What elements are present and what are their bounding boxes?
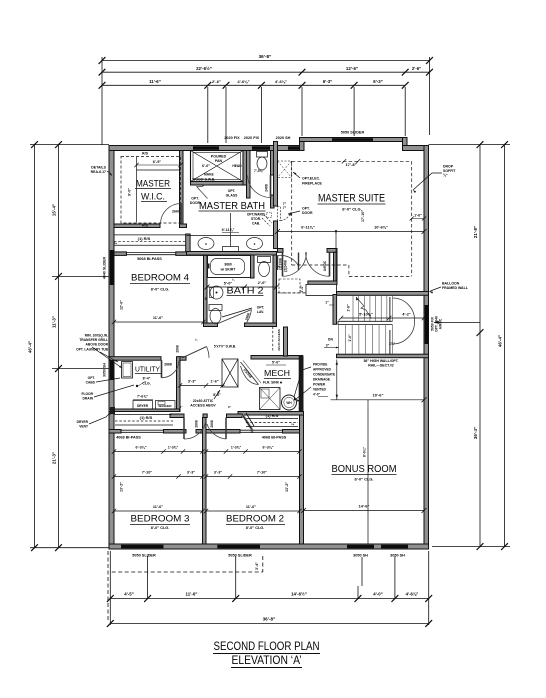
svg-text:OPT.ELEC.: OPT.ELEC. <box>302 177 320 181</box>
svg-text:8’-0” CLG.: 8’-0” CLG. <box>246 526 265 530</box>
svg-text:6’-3”: 6’-3” <box>323 79 333 84</box>
svg-text:DETAILS: DETAILS <box>91 166 106 170</box>
svg-text:1’-6”: 1’-6” <box>414 214 422 218</box>
svg-text:5’: 5’ <box>205 297 208 301</box>
svg-text:MAKE: MAKE <box>204 173 215 177</box>
svg-text:2020 SH: 2020 SH <box>276 136 291 140</box>
svg-text:15’-4”: 15’-4” <box>52 204 57 216</box>
svg-text:FLOOR: FLOOR <box>81 392 93 396</box>
svg-text:POURED: POURED <box>211 155 227 159</box>
svg-text:11’-3”: 11’-3” <box>52 316 57 328</box>
svg-text:DROP: DROP <box>443 165 454 169</box>
svg-text:22x30 ACCESS: 22x30 ACCESS <box>277 329 281 351</box>
svg-text:6’-11⅝”: 6’-11⅝” <box>301 226 315 230</box>
svg-text:ACCESS ABOV: ACCESS ABOV <box>190 404 216 408</box>
svg-text:7”: 7” <box>283 202 287 206</box>
svg-text:STOR.: STOR. <box>251 217 261 221</box>
svg-text:1’-0”: 1’-0” <box>348 334 352 342</box>
svg-text:CABS: CABS <box>86 381 96 385</box>
svg-text:UTILITY: UTILITY <box>135 365 160 374</box>
svg-text:1’-3⅝”: 1’-3⅝” <box>168 446 179 450</box>
svg-text:BALLOON: BALLOON <box>442 282 460 286</box>
svg-text:8’-0” CLG.: 8’-0” CLG. <box>354 477 373 482</box>
svg-text:BEDROOM 4: BEDROOM 4 <box>131 273 189 284</box>
svg-text:VENTED: VENTED <box>313 388 327 392</box>
svg-text:21’-8”: 21’-8” <box>473 226 478 238</box>
svg-text:4068 BI-PASS: 4068 BI-PASS <box>262 436 287 440</box>
svg-text:MASTER BATH: MASTER BATH <box>199 201 265 212</box>
svg-text:8’-0” CLG.: 8’-0” CLG. <box>151 526 170 530</box>
svg-text:OPT.: OPT. <box>191 197 199 201</box>
svg-text:PROVIDE: PROVIDE <box>313 363 327 367</box>
svg-text:4’-6⅞”: 4’-6⅞” <box>406 592 419 597</box>
svg-text:4’-6⅛”: 4’-6⅛” <box>237 79 249 84</box>
svg-text:17’-8”: 17’-8” <box>345 162 356 167</box>
svg-text:2660: 2660 <box>172 210 180 214</box>
svg-text:7”: 7” <box>283 206 287 210</box>
svg-text:12’-6”: 12’-6” <box>120 300 124 310</box>
svg-text:9’-0”: 9’-0” <box>128 188 132 196</box>
svg-text:ABOVE DOOR: ABOVE DOOR <box>85 343 108 347</box>
svg-text:OPT.: OPT. <box>257 306 265 310</box>
svg-text:4’-6⅛”: 4’-6⅛” <box>275 79 287 84</box>
svg-text:46’-4”: 46’-4” <box>498 335 503 347</box>
svg-text:(1) R/S: (1) R/S <box>138 236 151 241</box>
svg-text:3050 SH: 3050 SH <box>390 554 405 558</box>
svg-text:CLG.: CLG. <box>142 382 150 386</box>
svg-text:7’-6⅞”: 7’-6⅞” <box>137 395 148 399</box>
svg-text:12’-6”: 12’-6” <box>346 66 358 71</box>
svg-text:FRAMED WALL: FRAMED WALL <box>442 286 469 290</box>
svg-text:APPROVED: APPROVED <box>313 368 332 372</box>
svg-text:OPT.: OPT. <box>228 189 236 193</box>
svg-text:DN: DN <box>328 338 333 342</box>
svg-text:BEDROOM 2: BEDROOM 2 <box>226 514 284 525</box>
svg-text:HEAD: HEAD <box>232 164 242 168</box>
svg-text:6’-3”: 6’-3” <box>373 79 383 84</box>
svg-text:3”: 3” <box>326 344 330 348</box>
svg-text:4’-0”: 4’-0” <box>313 393 320 397</box>
svg-text:5050 SLIDER: 5050 SLIDER <box>341 131 365 135</box>
svg-text:2’-6”: 2’-6” <box>258 281 267 285</box>
svg-text:36’-4”: 36’-4” <box>473 427 478 439</box>
svg-text:w/ SKIRT: w/ SKIRT <box>220 268 237 272</box>
svg-text:OPT. LAUNDRY TUB: OPT. LAUNDRY TUB <box>76 348 108 352</box>
svg-text:8’-4”: 8’-4” <box>143 377 151 381</box>
svg-text:6’-3⅛”: 6’-3⅛” <box>263 446 274 450</box>
svg-text:2468: 2468 <box>265 184 269 192</box>
svg-text:3050 SH: 3050 SH <box>103 363 107 377</box>
svg-text:4068 BI-PASS: 4068 BI-PASS <box>116 436 141 440</box>
svg-text:11’-6”: 11’-6” <box>153 505 163 509</box>
svg-text:BEDROOM 3: BEDROOM 3 <box>131 514 190 525</box>
svg-text:1’-4”: 1’-4” <box>300 285 304 293</box>
svg-text:5’-6”: 5’-6” <box>272 361 280 365</box>
svg-text:BONUS ROOM: BONUS ROOM <box>332 464 397 475</box>
svg-text:10’-6⅝”: 10’-6⅝” <box>374 226 388 230</box>
svg-text:13’-2”: 13’-2” <box>120 482 124 492</box>
svg-text:(2)2468: (2)2468 <box>284 260 288 272</box>
svg-text:5’x7’0” D.W.B.: 5’x7’0” D.W.B. <box>214 345 236 349</box>
svg-text:4’-0”: 4’-0” <box>373 592 383 597</box>
svg-text:REA-6.17: REA-6.17 <box>91 170 106 174</box>
svg-text:3”: 3” <box>228 405 232 409</box>
svg-text:MIN. 100SQ.IN.: MIN. 100SQ.IN. <box>85 334 108 338</box>
svg-text:3’-3”: 3’-3” <box>188 380 196 384</box>
svg-text:MASTER SUITE: MASTER SUITE <box>318 193 385 205</box>
svg-text:4040 SLIDER: 4040 SLIDER <box>103 257 107 280</box>
svg-text:PAN: PAN <box>215 159 223 163</box>
svg-text:22’-6½”: 22’-6½” <box>196 66 212 71</box>
svg-text:TRANSFER GRILL: TRANSFER GRILL <box>79 338 108 342</box>
svg-text:WH: WH <box>286 401 292 405</box>
svg-text:9’-11⅞”: 9’-11⅞” <box>222 228 235 232</box>
svg-text:46’-4”: 46’-4” <box>28 341 33 353</box>
svg-text:14’-6½”: 14’-6½” <box>291 592 307 597</box>
svg-text:DRAINAGE: DRAINAGE <box>313 378 330 382</box>
svg-text:36’-8”: 36’-8” <box>259 54 272 59</box>
svg-text:3¾”: 3¾” <box>389 342 396 346</box>
svg-text:22x30 ATTIC: 22x30 ATTIC <box>193 399 214 403</box>
svg-text:A/RDC: A/RDC <box>439 318 443 329</box>
svg-text:5’-10⅝”: 5’-10⅝” <box>359 313 373 317</box>
svg-text:1”: 1” <box>325 301 329 305</box>
svg-text:8’-0” CLG.: 8’-0” CLG. <box>151 288 170 292</box>
svg-text:2668: 2668 <box>176 345 180 353</box>
svg-text:3’-4”: 3’-4” <box>255 562 259 570</box>
svg-text:3’-3”: 3’-3” <box>214 471 222 475</box>
svg-text:3”: 3” <box>179 405 183 409</box>
svg-text:6’-3⅛”: 6’-3⅛” <box>136 446 147 450</box>
svg-text:7’-10”: 7’-10” <box>142 471 152 475</box>
svg-text:VENT: VENT <box>79 425 88 429</box>
svg-text:4’-5”: 4’-5” <box>124 592 134 597</box>
svg-text:4’-2”: 4’-2” <box>402 313 411 317</box>
svg-text:17’-10”: 17’-10” <box>361 210 365 222</box>
svg-text:OPT.: OPT. <box>302 207 310 211</box>
svg-text:ELEVATION ‘A’: ELEVATION ‘A’ <box>232 655 302 667</box>
svg-text:MASTER: MASTER <box>136 179 170 189</box>
svg-text:FLR. SINK: FLR. SINK <box>263 381 280 385</box>
svg-text:6’-6”: 6’-6” <box>202 164 210 168</box>
svg-text:11’-6”: 11’-6” <box>149 79 161 84</box>
svg-text:FIREPLACE: FIREPLACE <box>302 182 323 186</box>
svg-text:10’-6”: 10’-6” <box>373 393 384 398</box>
svg-text:11’-6”: 11’-6” <box>246 505 256 509</box>
svg-text:2’-6”: 2’-6” <box>412 66 421 71</box>
svg-text:CONDENSATE: CONDENSATE <box>313 373 335 377</box>
svg-text:2’-6”: 2’-6” <box>212 79 221 84</box>
svg-text:POWER: POWER <box>313 383 326 387</box>
svg-text:7’-10”: 7’-10” <box>257 471 267 475</box>
svg-text:SOFFIT: SOFFIT <box>443 169 456 173</box>
svg-text:8’-0” CLG.: 8’-0” CLG. <box>342 207 362 212</box>
svg-text:3’-3”: 3’-3” <box>187 471 195 475</box>
svg-text:6’-9”: 6’-9” <box>153 160 162 164</box>
svg-text:1’: 1’ <box>114 242 118 245</box>
svg-text:R/S: R/S <box>142 224 149 228</box>
svg-text:DRYER: DRYER <box>77 420 89 424</box>
svg-text:CAB.: CAB. <box>252 222 260 226</box>
svg-text:1’-6”: 1’-6” <box>210 380 218 384</box>
svg-text:DRAIN: DRAIN <box>83 397 94 401</box>
svg-text:1’-8”: 1’-8” <box>347 304 351 312</box>
svg-text:BATH 2: BATH 2 <box>227 286 264 296</box>
svg-text:36’-8”: 36’-8” <box>263 617 276 622</box>
svg-text:5050 SLIDER: 5050 SLIDER <box>132 554 156 558</box>
svg-text:2668: 2668 <box>195 420 199 428</box>
svg-text:‘GOOD’ D.W.B.: ‘GOOD’ D.W.B. <box>192 178 215 182</box>
svg-text:14’-6”: 14’-6” <box>359 504 370 509</box>
svg-text:21’-3”: 21’-3” <box>52 452 57 464</box>
svg-text:5050 SLIDER: 5050 SLIDER <box>228 554 252 558</box>
svg-text:SECOND FLOOR PLAN: SECOND FLOOR PLAN <box>214 641 320 653</box>
svg-text:7’-5⅝”: 7’-5⅝” <box>254 169 264 173</box>
svg-text:2668: 2668 <box>164 363 172 367</box>
svg-text:DRYER: DRYER <box>137 404 149 408</box>
svg-text:LAV.: LAV. <box>257 310 264 314</box>
svg-text:2020 FIX: 2020 FIX <box>224 136 240 140</box>
svg-text:5068 BI-PASS: 5068 BI-PASS <box>137 257 162 261</box>
svg-text:OPT.WARD/: OPT.WARD/ <box>247 213 265 217</box>
svg-text:2668: 2668 <box>210 420 214 428</box>
svg-text:1’: 1’ <box>291 423 295 426</box>
svg-text:DOOR: DOOR <box>302 211 313 215</box>
svg-text:3660: 3660 <box>224 263 232 267</box>
svg-text:1’-3⅝”: 1’-3⅝” <box>231 446 242 450</box>
svg-text:(1) R/S: (1) R/S <box>140 415 153 420</box>
svg-text:2020 FIX: 2020 FIX <box>244 136 260 140</box>
svg-text:13’-2”: 13’-2” <box>285 482 289 492</box>
svg-text:MECH: MECH <box>264 368 290 378</box>
svg-text:11’-6”: 11’-6” <box>186 592 198 597</box>
svg-text:8’-6”: 8’-6” <box>213 393 221 397</box>
svg-text:(1) R/S: (1) R/S <box>266 413 279 418</box>
svg-text:GLASS: GLASS <box>226 194 238 198</box>
svg-text:8’-0⅛”: 8’-0⅛” <box>363 447 367 457</box>
svg-text:A/RDC: A/RDC <box>323 260 327 271</box>
svg-text:36” HIGH WALL/OPT.: 36” HIGH WALL/OPT. <box>363 359 398 363</box>
svg-text:RAIL—SECT.#2: RAIL—SECT.#2 <box>368 364 394 368</box>
svg-text:OPT.: OPT. <box>88 376 95 380</box>
svg-text:11’-6”: 11’-6” <box>153 316 163 320</box>
svg-text:R/S: R/S <box>142 152 149 156</box>
svg-text:¾”: ¾” <box>443 174 448 178</box>
svg-text:W.I.C.: W.I.C. <box>141 192 165 202</box>
svg-text:3050 SH: 3050 SH <box>353 554 368 558</box>
